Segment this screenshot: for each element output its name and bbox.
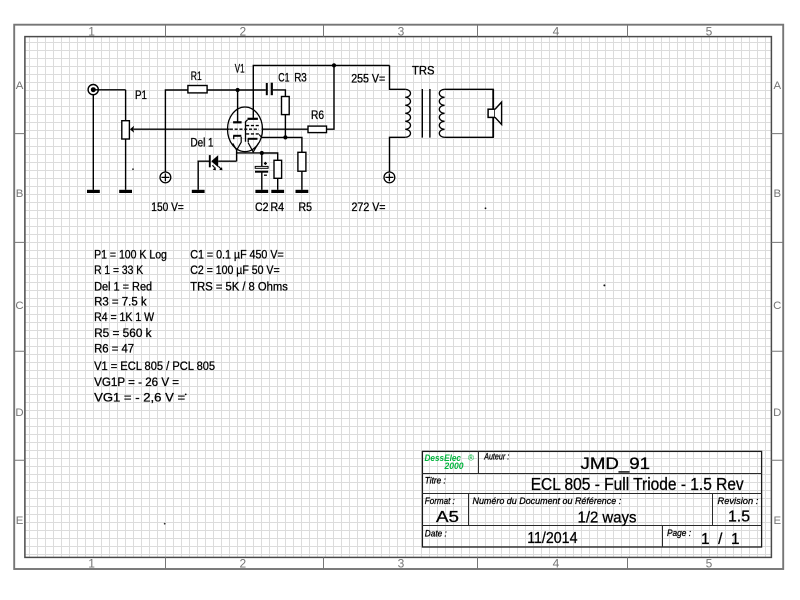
title block label Format bbox=[425, 496, 455, 507]
node B junction bbox=[332, 63, 336, 67]
svg-text:1: 1 bbox=[88, 556, 95, 570]
wire TRS primary bottom to 272V supply bbox=[390, 137, 406, 172]
wire secondary to speaker loop bbox=[445, 89, 494, 137]
svg-text:VG1 = - 2,6 V =: VG1 = - 2,6 V = bbox=[94, 391, 185, 405]
label C1 bbox=[278, 71, 289, 85]
ground (P1) bbox=[119, 190, 132, 193]
label TRS bbox=[412, 64, 435, 78]
svg-text:2: 2 bbox=[239, 556, 246, 570]
input jack bbox=[88, 85, 98, 95]
wire R6 to node B bbox=[327, 65, 335, 129]
node A junction bbox=[236, 88, 240, 92]
title block label Date bbox=[425, 529, 447, 540]
svg-text:V1: V1 bbox=[235, 62, 245, 76]
tube V1 grid dashes (triode grid / pentode g2) bbox=[230, 128, 259, 130]
tube V1 pentode g1 dashes bbox=[246, 134, 261, 137]
svg-text:V1 = ECL 805 / PCL 805: V1 = ECL 805 / PCL 805 bbox=[94, 359, 215, 373]
label R3 bbox=[294, 71, 307, 85]
label 272 V= bbox=[352, 200, 386, 214]
svg-text:2000: 2000 bbox=[444, 461, 465, 472]
svg-text:R 1 = 33 K: R 1 = 33 K bbox=[94, 263, 143, 277]
svg-text:P1 = 100 K Log: P1 = 100 K Log bbox=[94, 248, 167, 262]
svg-text:1.5: 1.5 bbox=[728, 509, 750, 526]
transformer TRS secondary winding bbox=[439, 89, 444, 137]
svg-text:JMD_91: JMD_91 bbox=[581, 454, 651, 473]
title block author JMD_91 bbox=[581, 454, 651, 473]
svg-text:D: D bbox=[15, 407, 23, 419]
title block document 1/2 ways bbox=[578, 510, 637, 527]
wire node C to R4 bbox=[262, 153, 278, 160]
svg-text:5: 5 bbox=[706, 556, 713, 570]
wire jack to ground bbox=[92, 95, 94, 190]
svg-text:C: C bbox=[15, 300, 23, 312]
svg-text:Del 1: Del 1 bbox=[191, 135, 214, 149]
svg-text:R3 = 7.5 k: R3 = 7.5 k bbox=[94, 295, 147, 309]
label R4 bbox=[271, 200, 285, 214]
wire 255V rail to TRS primary bbox=[390, 65, 406, 89]
wire triode cathode to Del 1 bbox=[218, 160, 236, 162]
ground (R4) bbox=[271, 190, 284, 193]
svg-text:B: B bbox=[773, 188, 781, 200]
title block frame bbox=[422, 451, 762, 547]
svg-text:255 V=: 255 V= bbox=[351, 72, 385, 86]
svg-text:4: 4 bbox=[553, 25, 560, 39]
stray mark 2 bbox=[485, 207, 487, 209]
svg-text:1/2 ways: 1/2 ways bbox=[578, 510, 637, 527]
svg-text:5: 5 bbox=[706, 25, 713, 39]
svg-text:B: B bbox=[16, 188, 24, 200]
svg-text:2: 2 bbox=[239, 25, 246, 39]
svg-text:4: 4 bbox=[553, 556, 560, 570]
title block page 1 / 1 bbox=[701, 531, 740, 548]
label R6 bbox=[311, 108, 324, 122]
stray mark 3 bbox=[603, 284, 605, 286]
wire 150V supply to R1 bbox=[165, 90, 188, 172]
tube V1 pentode cathode bbox=[248, 139, 258, 143]
wire node C to C2 bbox=[261, 153, 263, 166]
svg-text:R5 = 560 k: R5 = 560 k bbox=[94, 326, 152, 340]
resistor R3 bbox=[282, 97, 290, 115]
svg-text:R3: R3 bbox=[294, 71, 307, 85]
svg-text:P1: P1 bbox=[135, 88, 147, 102]
svg-text:R5: R5 bbox=[299, 200, 313, 214]
label V1 bbox=[235, 62, 245, 76]
svg-text:R1: R1 bbox=[191, 69, 202, 83]
capacitor C2 electrolytic bbox=[255, 162, 268, 175]
svg-text:TRS = 5K / 8 Ohms: TRS = 5K / 8 Ohms bbox=[190, 279, 287, 293]
wire Del 1 to ground bbox=[198, 161, 209, 190]
resistor R5 bbox=[298, 152, 306, 171]
svg-text:ECL 805 - Full Triode - 1.5 Re: ECL 805 - Full Triode - 1.5 Rev bbox=[531, 474, 744, 494]
ground (input jack) bbox=[87, 190, 100, 193]
tube V1 pentode g3 dashes bbox=[246, 125, 259, 127]
notes: component values (right column) bbox=[190, 248, 287, 294]
svg-text:11/2014: 11/2014 bbox=[527, 530, 577, 547]
svg-text:Auteur :: Auteur : bbox=[483, 452, 509, 463]
svg-text:VG1P = - 26 V =: VG1P = - 26 V = bbox=[94, 375, 179, 389]
wire node A to C1 bbox=[238, 89, 266, 91]
wire R1 to node A bbox=[207, 89, 238, 91]
svg-text:3: 3 bbox=[398, 25, 405, 39]
svg-text:A5: A5 bbox=[436, 509, 459, 526]
stray mark 1 bbox=[132, 168, 134, 170]
label Del 1 bbox=[191, 135, 214, 149]
tube V1 pentode plate bbox=[248, 118, 258, 120]
tube V1 envelope bbox=[228, 107, 263, 152]
resistor R4 bbox=[274, 160, 282, 178]
svg-text:C1 = 0.1 µF 450 V=: C1 = 0.1 µF 450 V= bbox=[190, 248, 283, 262]
wire P1 wiper to V1 triode grid bbox=[133, 128, 229, 130]
svg-text:Format :: Format : bbox=[425, 496, 455, 507]
wire R3 to node K bbox=[284, 115, 286, 138]
wire pentode screen grid to R6 bbox=[262, 128, 309, 130]
wire jack to P1 top bbox=[96, 90, 126, 121]
svg-text:272 V=: 272 V= bbox=[352, 200, 386, 214]
svg-text:Page :: Page : bbox=[667, 528, 691, 539]
label R5 bbox=[299, 200, 313, 214]
svg-text:R6: R6 bbox=[311, 108, 324, 122]
node K junction bbox=[283, 135, 287, 139]
supply symbol 272V bbox=[384, 172, 395, 183]
svg-text:1 / 1: 1 / 1 bbox=[701, 531, 740, 548]
wire pentode plate to TRS (255V rail) bbox=[253, 65, 389, 118]
wire C2 to ground bbox=[261, 172, 263, 190]
title block label Revision bbox=[718, 496, 759, 507]
tube V1 triode cathode bbox=[233, 136, 241, 139]
svg-text:A: A bbox=[773, 80, 781, 92]
svg-text:E: E bbox=[16, 515, 24, 527]
LED Del 1 bbox=[210, 155, 223, 170]
title block label Page bbox=[667, 528, 691, 539]
node C junction (cathode / C2 / R4) bbox=[260, 151, 264, 155]
svg-text:1: 1 bbox=[88, 25, 95, 39]
wire C1 to R3 bbox=[273, 90, 286, 97]
label 255 V= bbox=[351, 72, 385, 86]
title block format A5 bbox=[436, 509, 459, 526]
speaker LS1 bbox=[488, 102, 502, 124]
resistor R1 bbox=[188, 86, 207, 93]
transformer TRS primary winding bbox=[405, 89, 410, 137]
title block label Numero du Document ou Reference bbox=[473, 496, 622, 507]
wire R4 to ground bbox=[277, 178, 279, 190]
title block title ECL 805 - Full Triode - 1.5 Rev bbox=[531, 474, 744, 494]
wire node A to triode plate bbox=[237, 90, 239, 122]
label R1 bbox=[191, 69, 202, 83]
notes: component values (left column) bbox=[94, 248, 215, 405]
title block date 11/2014 bbox=[527, 530, 577, 547]
wire R5 to ground bbox=[301, 171, 303, 190]
resistor R6 bbox=[308, 126, 327, 133]
wire P1 to ground bbox=[125, 139, 127, 190]
svg-text:Titre :: Titre : bbox=[425, 476, 446, 487]
tube V1 triode heater bbox=[233, 137, 241, 150]
label 150 V= bbox=[151, 200, 184, 214]
ground (R5) bbox=[296, 190, 309, 193]
svg-text:R4 = 1K 1 W: R4 = 1K 1 W bbox=[94, 310, 154, 324]
svg-text:C2 = 100 µF 50 V=: C2 = 100 µF 50 V= bbox=[190, 263, 279, 277]
wire pentode cathode to R5 bbox=[261, 137, 302, 152]
stray mark 4 bbox=[164, 523, 166, 525]
svg-text:TRS: TRS bbox=[412, 64, 435, 78]
svg-text:R6 = 47: R6 = 47 bbox=[94, 341, 134, 355]
title block logo DessElec 2000 bbox=[425, 453, 475, 472]
svg-text:®: ® bbox=[468, 453, 475, 463]
label P1 bbox=[135, 88, 147, 102]
tube V1 pentode heater bbox=[248, 143, 258, 152]
transformer TRS core bbox=[422, 89, 430, 138]
svg-text:150 V=: 150 V= bbox=[151, 200, 184, 214]
tube V1 pentode box edge bbox=[246, 120, 248, 142]
svg-text:D: D bbox=[773, 407, 781, 419]
svg-text:C2: C2 bbox=[255, 200, 269, 214]
svg-text:3: 3 bbox=[398, 556, 405, 570]
svg-text:C: C bbox=[773, 300, 781, 312]
capacitor C1 bbox=[266, 83, 273, 96]
svg-text:Date :: Date : bbox=[425, 529, 447, 540]
svg-text:A: A bbox=[16, 80, 24, 92]
tube V1 triode plate bbox=[233, 121, 242, 123]
title block revision 1.5 bbox=[728, 509, 750, 526]
title block label Auteur bbox=[483, 452, 509, 463]
svg-text:Revision :: Revision : bbox=[718, 496, 759, 507]
svg-text:E: E bbox=[773, 515, 781, 527]
svg-text:C1: C1 bbox=[278, 71, 289, 85]
svg-text:Del 1 = Red: Del 1 = Red bbox=[94, 279, 152, 293]
potentiometer P1 bbox=[122, 121, 134, 139]
label C2 bbox=[255, 200, 269, 214]
svg-text:Numéro du Document ou Référenc: Numéro du Document ou Référence : bbox=[473, 496, 622, 507]
title block label Titre bbox=[425, 476, 446, 487]
ground (Del 1) bbox=[192, 190, 205, 193]
wire cathode bottom rail bbox=[237, 150, 262, 161]
svg-text:R4: R4 bbox=[271, 200, 285, 214]
supply symbol 150V bbox=[160, 172, 171, 183]
ground (C2) bbox=[255, 190, 268, 193]
